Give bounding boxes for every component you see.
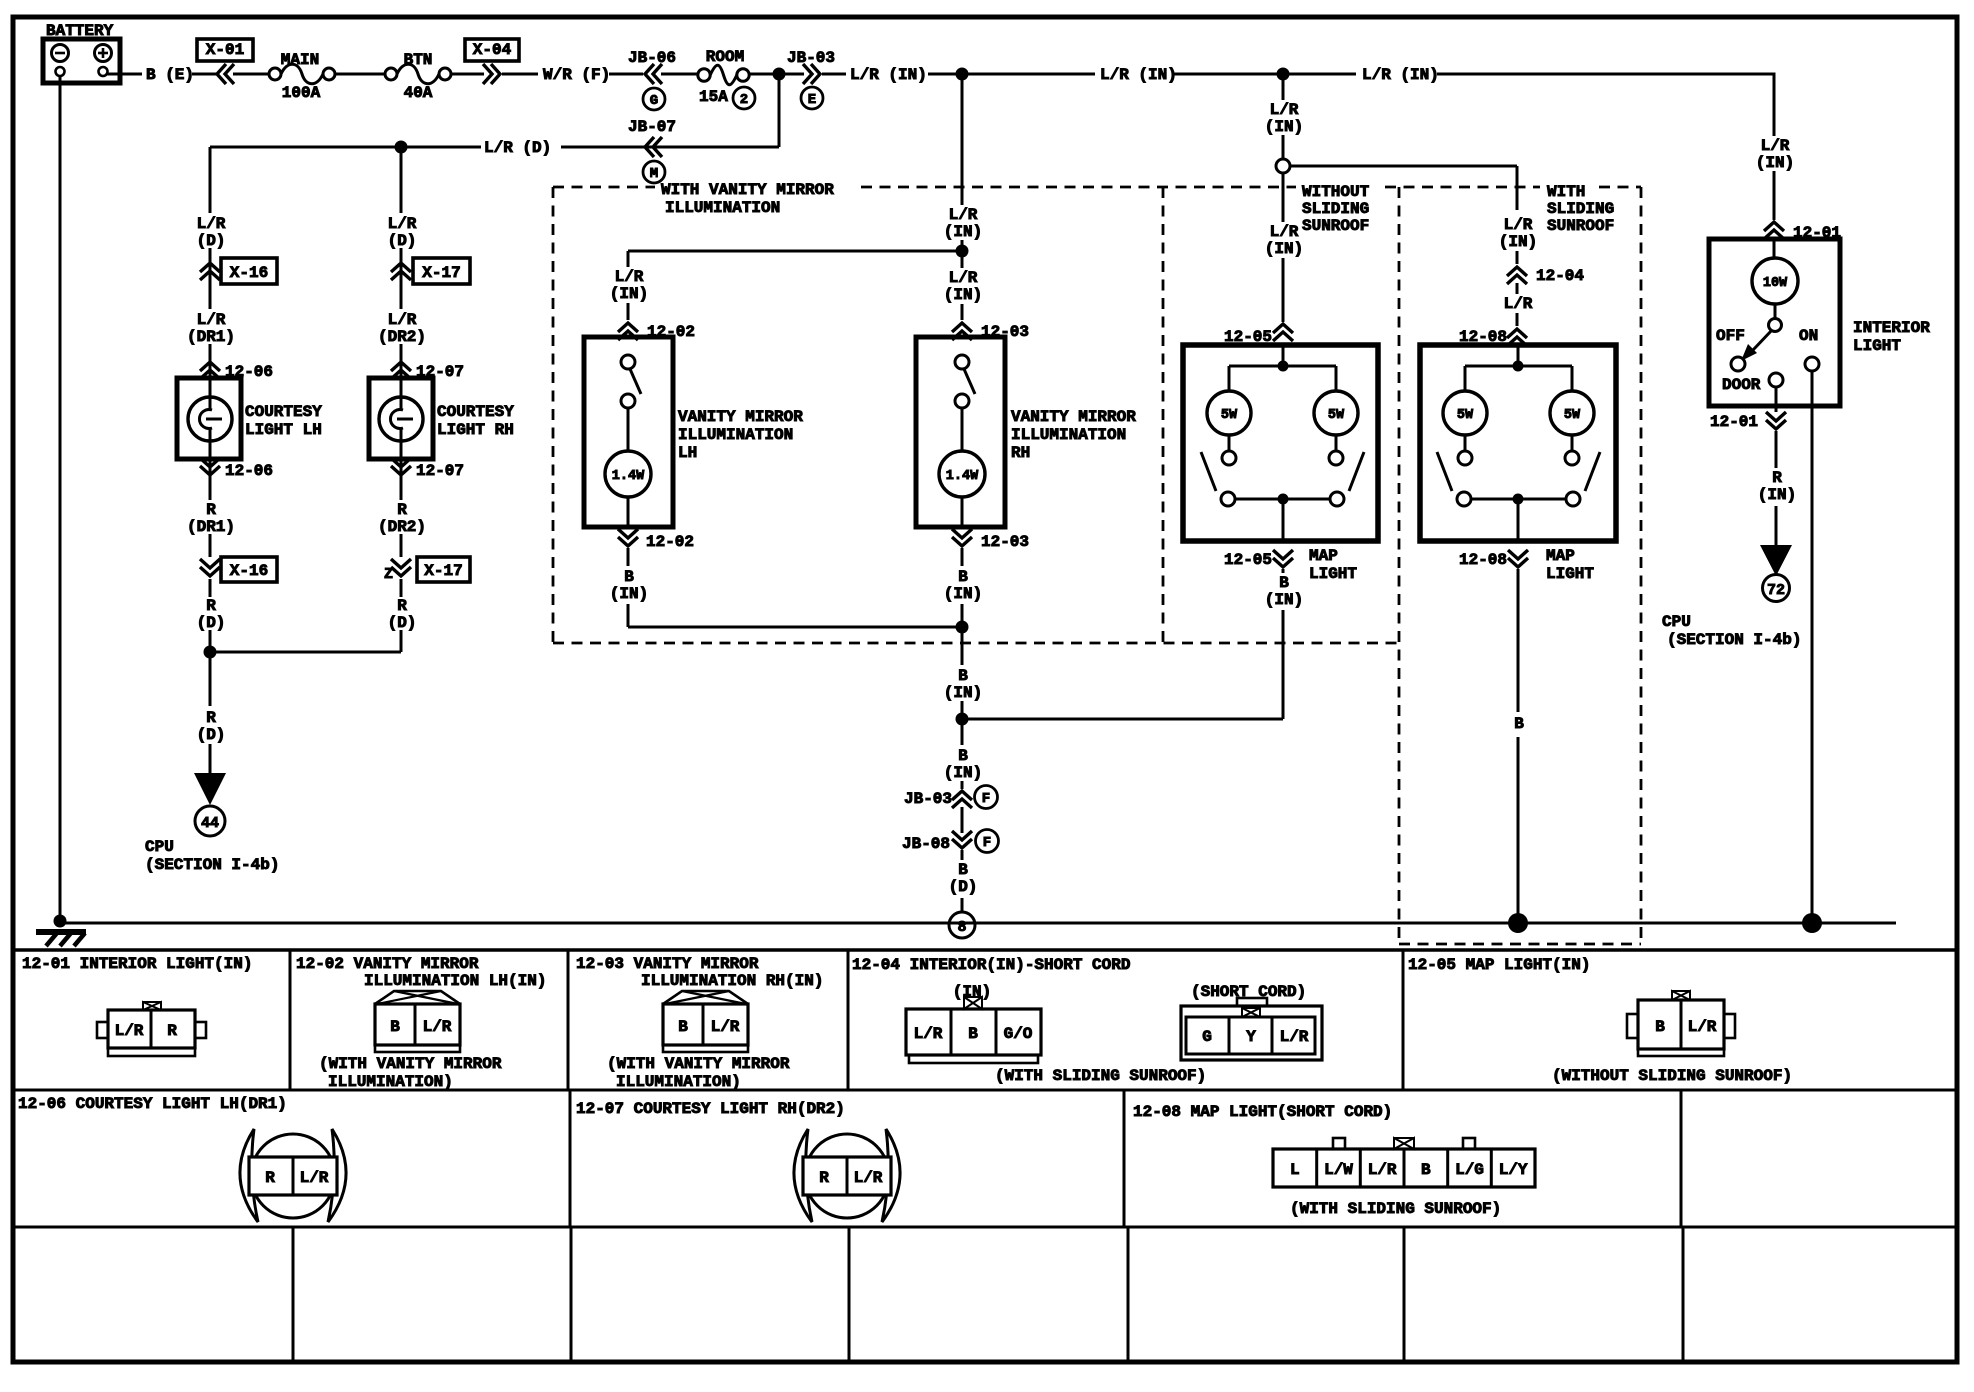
svg-text:12-01 INTERIOR LIGHT(IN): 12-01 INTERIOR LIGHT(IN) xyxy=(22,955,252,973)
svg-text:12-02: 12-02 xyxy=(646,533,694,551)
svg-text:L/R: L/R xyxy=(1688,1018,1717,1036)
svg-text:12-05: 12-05 xyxy=(1224,551,1272,569)
wire B(E) battery positive to X-01 xyxy=(108,73,143,76)
wire branch to courtesy light RH xyxy=(395,141,408,154)
svg-text:LIGHT LH: LIGHT LH xyxy=(245,421,322,439)
svg-text:(WITH VANITY MIRROR: (WITH VANITY MIRROR xyxy=(319,1055,502,1073)
svg-text:CPU: CPU xyxy=(145,838,174,856)
svg-text:JB-07: JB-07 xyxy=(628,118,676,136)
bulb 10W xyxy=(1752,258,1798,304)
svg-text:(DR2): (DR2) xyxy=(378,518,426,536)
svg-text:X-01: X-01 xyxy=(206,41,244,59)
svg-text:B: B xyxy=(1421,1161,1431,1179)
svg-text:(IN): (IN) xyxy=(944,684,982,702)
svg-text:LIGHT RH: LIGHT RH xyxy=(437,421,514,439)
svg-text:12-07: 12-07 xyxy=(416,462,464,480)
connector 12-05 pin (top) xyxy=(1273,324,1293,341)
connector X-04 xyxy=(483,64,500,84)
svg-text:(D): (D) xyxy=(388,232,417,250)
svg-text:SLIDING: SLIDING xyxy=(1302,200,1369,218)
svg-text:ROOM: ROOM xyxy=(706,48,744,66)
svg-text:B: B xyxy=(390,1018,400,1036)
wire L/R(IN) vanity LH xyxy=(627,251,630,267)
svg-text:L/R: L/R xyxy=(197,215,226,233)
vanity mirror illumination LH xyxy=(584,337,673,527)
svg-text:(DR1): (DR1) xyxy=(187,328,235,346)
svg-text:WITHOUT: WITHOUT xyxy=(1302,183,1370,201)
svg-text:G/O: G/O xyxy=(1004,1025,1033,1043)
courtesy light LH xyxy=(177,378,241,459)
wire B(IN) vanity LH to junction xyxy=(627,604,630,627)
svg-text:15A: 15A xyxy=(699,88,728,106)
svg-text:OFF: OFF xyxy=(1716,327,1745,345)
svg-text:B: B xyxy=(1655,1018,1665,1036)
svg-text:M: M xyxy=(650,166,658,182)
connector 12-07 pin (top) xyxy=(391,362,411,379)
switch pivot xyxy=(1769,319,1782,332)
connector drawing 12-07 xyxy=(794,1129,812,1222)
connector X-16 xyxy=(200,263,220,280)
connector 12-01 pin (top) xyxy=(1764,222,1784,239)
svg-text:(WITH SLIDING SUNROOF): (WITH SLIDING SUNROOF) xyxy=(995,1067,1206,1085)
svg-text:ILLUMINATION: ILLUMINATION xyxy=(1011,426,1126,444)
map light (without sliding sunroof) xyxy=(1183,345,1378,541)
fusible link BTN 40A xyxy=(385,68,397,80)
svg-text:F: F xyxy=(982,791,990,807)
svg-text:L/R: L/R xyxy=(711,1018,740,1036)
svg-text:L/R: L/R xyxy=(1761,137,1790,155)
svg-text:(IN): (IN) xyxy=(944,764,982,782)
svg-text:RH: RH xyxy=(1011,444,1030,462)
svg-text:(D): (D) xyxy=(197,614,226,632)
svg-text:G: G xyxy=(650,93,658,109)
svg-text:X-16: X-16 xyxy=(230,264,268,282)
option box WITH SLIDING SUNROOF (dashed) xyxy=(1599,186,1641,189)
wire L/R(D) down to courtesy light LH xyxy=(209,147,212,213)
svg-text:L/W: L/W xyxy=(1324,1161,1353,1179)
wire xyxy=(233,73,269,76)
svg-text:1.4W: 1.4W xyxy=(946,469,979,484)
svg-text:L/R (D): L/R (D) xyxy=(484,139,551,157)
svg-text:ILLUMINATION RH(IN): ILLUMINATION RH(IN) xyxy=(641,972,823,990)
interior light xyxy=(1709,239,1840,406)
connector drawing 12-05 xyxy=(1627,1014,1638,1038)
bulb 5W right xyxy=(1550,391,1594,435)
node ground connector 8 xyxy=(949,912,975,938)
node battery ground junction xyxy=(54,915,67,928)
connector 12-03 pin (bottom) xyxy=(952,529,972,546)
connector drawing 12-02 xyxy=(375,991,460,1004)
wire branch to 12-04 xyxy=(1290,165,1517,168)
svg-text:(WITHOUT SLIDING SUNROOF): (WITHOUT SLIDING SUNROOF) xyxy=(1552,1067,1792,1085)
svg-text:COURTESY: COURTESY xyxy=(245,403,322,421)
wire B to ground bus xyxy=(1517,737,1520,923)
svg-text:L/Y: L/Y xyxy=(1499,1161,1528,1179)
connector drawing 12-04 (IN) xyxy=(906,1009,1041,1055)
connector X-17 xyxy=(391,263,411,280)
wire xyxy=(749,73,804,76)
svg-text:BATTERY: BATTERY xyxy=(46,22,114,40)
connector table grid xyxy=(13,948,1957,952)
svg-text:R: R xyxy=(397,501,407,519)
svg-text:12-07 COURTESY LIGHT RH(DR2): 12-07 COURTESY LIGHT RH(DR2) xyxy=(576,1100,845,1118)
svg-text:L/R: L/R xyxy=(388,311,417,329)
svg-text:MAP: MAP xyxy=(1546,547,1575,565)
svg-text:WITH: WITH xyxy=(1547,183,1585,201)
svg-text:B: B xyxy=(958,568,968,586)
svg-text:R: R xyxy=(819,1169,829,1187)
svg-text:5W: 5W xyxy=(1564,408,1581,423)
svg-text:5W: 5W xyxy=(1457,408,1474,423)
vanity mirror illumination RH xyxy=(916,337,1005,527)
wire B(IN) xyxy=(961,604,964,665)
svg-text:L: L xyxy=(1290,1161,1300,1179)
fuse ROOM 15A pin 2 xyxy=(698,69,710,81)
svg-text:LH: LH xyxy=(678,444,697,462)
svg-text:ILLUMINATION: ILLUMINATION xyxy=(665,199,780,217)
svg-text:JB-03: JB-03 xyxy=(904,790,952,808)
svg-text:40A: 40A xyxy=(404,84,433,102)
svg-text:44: 44 xyxy=(201,815,219,832)
wire L/R(IN) down to vanity mirrors xyxy=(961,74,964,205)
wire DOOR contact down xyxy=(1775,387,1778,412)
svg-text:JB-06: JB-06 xyxy=(628,49,676,67)
wire L/R(D) xyxy=(561,146,779,149)
svg-text:L/R: L/R xyxy=(1270,223,1299,241)
connector 12-02 pin (bottom) xyxy=(618,529,638,546)
junction block JB-07 pin M xyxy=(645,137,662,157)
svg-text:L/R: L/R xyxy=(1280,1028,1309,1046)
svg-text:(IN): (IN) xyxy=(944,286,982,304)
svg-text:L/R: L/R xyxy=(1270,101,1299,119)
wire battery negative to ground bus xyxy=(59,76,62,921)
arrow to CPU pin 72 xyxy=(1760,545,1792,576)
node junction vanity grounds xyxy=(956,621,969,634)
svg-text:(IN): (IN) xyxy=(1499,233,1537,251)
svg-text:(D): (D) xyxy=(388,614,417,632)
svg-text:X-16: X-16 xyxy=(230,562,268,580)
svg-text:R: R xyxy=(397,597,407,615)
node main junction to JB-07 branch xyxy=(773,68,786,81)
svg-text:(D): (D) xyxy=(197,232,226,250)
svg-text:DOOR: DOOR xyxy=(1722,376,1761,394)
connector 12-08 pin (bottom) xyxy=(1508,550,1528,567)
svg-text:5W: 5W xyxy=(1328,408,1345,423)
svg-text:12-01: 12-01 xyxy=(1710,413,1758,431)
node CPU pin 44 xyxy=(195,806,225,836)
svg-text:R: R xyxy=(206,709,216,727)
svg-text:JB-08: JB-08 xyxy=(902,835,950,853)
svg-text:L/R: L/R xyxy=(615,268,644,286)
wire L/R(IN) down to map light (without sunroof) xyxy=(1282,74,1285,100)
connector 12-08 pin (top) xyxy=(1507,329,1527,346)
svg-text:12-06: 12-06 xyxy=(225,462,273,480)
svg-text:SUNROOF: SUNROOF xyxy=(1302,217,1369,235)
wire xyxy=(335,73,385,76)
junction block JB-03 pin F xyxy=(952,791,972,808)
svg-text:JB-03: JB-03 xyxy=(787,49,835,67)
svg-text:(IN): (IN) xyxy=(953,983,991,1001)
fusible link MAIN 100A xyxy=(269,68,281,80)
battery B+ / B- source xyxy=(43,39,120,83)
svg-text:SLIDING: SLIDING xyxy=(1547,200,1614,218)
ground bus wire xyxy=(60,922,1896,925)
wire W/R(F) xyxy=(502,73,538,76)
svg-text:L/R (IN): L/R (IN) xyxy=(1100,66,1177,84)
wire xyxy=(661,73,697,76)
svg-text:B: B xyxy=(624,568,634,586)
svg-text:(IN): (IN) xyxy=(1758,486,1796,504)
svg-text:ILLUMINATION): ILLUMINATION) xyxy=(328,1073,453,1091)
connector 12-05 pin (bottom) xyxy=(1273,550,1293,567)
svg-text:72: 72 xyxy=(1767,582,1785,599)
svg-text:B (E): B (E) xyxy=(146,66,194,84)
svg-text:(IN): (IN) xyxy=(610,585,648,603)
svg-text:INTERIOR: INTERIOR xyxy=(1853,319,1930,337)
svg-text:12-04 INTERIOR(IN)-SHORT CORD: 12-04 INTERIOR(IN)-SHORT CORD xyxy=(852,956,1130,974)
node junction to map-light feed xyxy=(1277,68,1290,81)
courtesy light RH xyxy=(369,378,433,459)
svg-text:12-08: 12-08 xyxy=(1459,551,1507,569)
svg-text:L/R: L/R xyxy=(423,1018,452,1036)
option box WITH VANITY MIRROR ILLUMINATION (dashed) xyxy=(553,186,655,189)
connector drawing 12-01 xyxy=(97,1022,108,1038)
svg-text:F: F xyxy=(983,835,991,851)
svg-text:12-05 MAP LIGHT(IN): 12-05 MAP LIGHT(IN) xyxy=(1408,956,1590,974)
svg-text:COURTESY: COURTESY xyxy=(437,403,514,421)
wire ON contact to ground bus xyxy=(1811,371,1814,923)
wire to junction xyxy=(400,630,403,652)
node junction to vanity-mirror feed xyxy=(956,68,969,81)
svg-text:L/R: L/R xyxy=(949,269,978,287)
node junction courtesy LH/RH xyxy=(204,646,217,659)
map light (with sliding sunroof) xyxy=(1420,345,1616,541)
connector 12-06 pin (bottom) xyxy=(200,458,220,475)
connector X-16 (door side) xyxy=(200,559,220,576)
svg-text:R: R xyxy=(206,597,216,615)
connector drawing 12-03 xyxy=(663,991,748,1004)
svg-text:10W: 10W xyxy=(1763,276,1788,291)
svg-text:VANITY MIRROR: VANITY MIRROR xyxy=(1011,408,1136,426)
svg-text:R: R xyxy=(206,501,216,519)
connector 12-01 pin (bottom) xyxy=(1766,412,1786,429)
connector 12-02 pin (top) xyxy=(618,323,638,340)
svg-text:MAP: MAP xyxy=(1309,547,1338,565)
svg-text:(IN): (IN) xyxy=(944,585,982,603)
svg-text:MAIN: MAIN xyxy=(281,51,319,69)
svg-text:Y: Y xyxy=(1246,1028,1256,1046)
wire L/R(IN) to interior light xyxy=(1437,73,1774,76)
svg-text:LIGHT: LIGHT xyxy=(1853,337,1901,355)
arrow to CPU pin 44 xyxy=(194,773,226,805)
svg-text:L/R: L/R xyxy=(949,206,978,224)
svg-text:B: B xyxy=(958,747,968,765)
svg-text:L/R (IN): L/R (IN) xyxy=(850,66,927,84)
svg-text:(DR1): (DR1) xyxy=(187,518,235,536)
node junction map light ground branch xyxy=(956,713,969,726)
svg-text:12-03: 12-03 xyxy=(981,533,1029,551)
svg-text:12-08 MAP LIGHT(SHORT CORD): 12-08 MAP LIGHT(SHORT CORD) xyxy=(1133,1103,1392,1121)
bulb 5W left xyxy=(1443,391,1487,435)
svg-text:E: E xyxy=(808,92,816,108)
svg-text:L/R: L/R xyxy=(1504,216,1533,234)
svg-text:5W: 5W xyxy=(1221,408,1238,423)
wire from junction down to L/R(D) line xyxy=(778,74,781,147)
svg-text:SUNROOF: SUNROOF xyxy=(1547,217,1614,235)
svg-text:(SECTION I-4b): (SECTION I-4b) xyxy=(145,856,279,874)
svg-text:12-06 COURTESY LIGHT LH(DR1): 12-06 COURTESY LIGHT LH(DR1) xyxy=(18,1095,287,1113)
svg-text:(IN): (IN) xyxy=(1265,240,1303,258)
svg-text:ILLUMINATION: ILLUMINATION xyxy=(678,426,793,444)
svg-text:B: B xyxy=(1514,715,1524,733)
option box WITHOUT SLIDING SUNROOF (dashed) xyxy=(1385,186,1540,189)
connector drawing 12-04 (SHORT CORD) xyxy=(1237,998,1267,1006)
switch levers xyxy=(1201,452,1216,491)
bulb 5W right xyxy=(1314,391,1358,435)
svg-text:L/G: L/G xyxy=(1455,1161,1484,1179)
svg-text:G: G xyxy=(1202,1028,1212,1046)
connector drawing 12-08 xyxy=(1333,1138,1345,1149)
svg-text:L/R: L/R xyxy=(1504,295,1533,313)
svg-text:L/R: L/R xyxy=(300,1169,329,1187)
svg-text:ON: ON xyxy=(1799,327,1818,345)
svg-text:W/R (F): W/R (F) xyxy=(543,66,610,84)
svg-text:(IN): (IN) xyxy=(610,285,648,303)
svg-text:(IN): (IN) xyxy=(1265,118,1303,136)
svg-text:LIGHT: LIGHT xyxy=(1546,565,1594,583)
switch levers xyxy=(1437,452,1452,491)
wire L/R(IN) down to map light (with sunroof) xyxy=(1516,166,1519,210)
svg-text:12-04: 12-04 xyxy=(1536,267,1584,285)
svg-text:(IN): (IN) xyxy=(944,223,982,241)
svg-text:(SECTION I-4b): (SECTION I-4b) xyxy=(1667,631,1801,649)
svg-text:(D): (D) xyxy=(949,878,978,896)
switch lever pointing to OFF xyxy=(1753,330,1772,350)
node CPU pin 72 xyxy=(1763,575,1790,602)
svg-text:(D): (D) xyxy=(197,726,226,744)
junction block JB-08 pin F xyxy=(952,831,972,848)
svg-text:(IN): (IN) xyxy=(1756,154,1794,172)
svg-text:VANITY MIRROR: VANITY MIRROR xyxy=(678,408,803,426)
connector 12-06 pin (top) xyxy=(200,362,220,379)
svg-text:X-17: X-17 xyxy=(422,264,460,282)
svg-text:L/R: L/R xyxy=(1368,1161,1397,1179)
svg-text:(DR2): (DR2) xyxy=(378,328,426,346)
svg-text:B: B xyxy=(958,667,968,685)
connector drawing 12-06 xyxy=(240,1129,258,1222)
svg-text:2: 2 xyxy=(740,92,748,108)
svg-text:R: R xyxy=(167,1022,177,1040)
node junction vanity LH branch xyxy=(956,245,969,258)
svg-text:WITH VANITY MIRROR: WITH VANITY MIRROR xyxy=(661,181,834,199)
svg-text:X-17: X-17 xyxy=(424,562,462,580)
svg-text:(IN): (IN) xyxy=(1265,591,1303,609)
wire xyxy=(451,73,484,76)
svg-text:L/R: L/R xyxy=(854,1169,883,1187)
svg-text:L/R: L/R xyxy=(197,311,226,329)
connector 12-07 pin (bottom) xyxy=(391,458,411,475)
svg-text:L/R (IN): L/R (IN) xyxy=(1362,66,1439,84)
svg-text:B: B xyxy=(678,1018,688,1036)
svg-text:B: B xyxy=(1279,574,1289,592)
node junction on ground bus xyxy=(1802,913,1822,933)
ground symbol xyxy=(36,929,86,935)
bulb 5W left xyxy=(1207,391,1251,435)
connector 12-04 pin xyxy=(1507,267,1527,284)
svg-text:1.4W: 1.4W xyxy=(612,469,645,484)
svg-text:L/R: L/R xyxy=(388,215,417,233)
svg-text:R: R xyxy=(265,1169,275,1187)
junction block JB-06 pin G xyxy=(645,64,662,84)
svg-text:12-03 VANITY MIRROR: 12-03 VANITY MIRROR xyxy=(576,955,759,973)
connector X-01 xyxy=(217,64,234,84)
wire branch to vanity LH xyxy=(628,250,962,253)
wire B(IN) to junction xyxy=(1282,610,1285,719)
svg-text:R: R xyxy=(1772,469,1782,487)
svg-text:12-02 VANITY MIRROR: 12-02 VANITY MIRROR xyxy=(296,955,479,973)
svg-text:100A: 100A xyxy=(282,84,321,102)
svg-text:X-04: X-04 xyxy=(473,41,512,59)
svg-text:L/R: L/R xyxy=(115,1022,144,1040)
wire L/R(IN) xyxy=(822,73,846,76)
svg-text:L/R: L/R xyxy=(914,1025,943,1043)
svg-text:ILLUMINATION): ILLUMINATION) xyxy=(616,1073,741,1091)
svg-text:(WITH VANITY MIRROR: (WITH VANITY MIRROR xyxy=(607,1055,790,1073)
node splice to sunroof map light feed xyxy=(1276,159,1290,173)
svg-text:LIGHT: LIGHT xyxy=(1309,565,1357,583)
svg-text:CPU: CPU xyxy=(1662,613,1691,631)
svg-text:B: B xyxy=(968,1025,978,1043)
svg-text:(WITH SLIDING SUNROOF): (WITH SLIDING SUNROOF) xyxy=(1290,1200,1501,1218)
junction block JB-03 pin E xyxy=(803,64,820,84)
connector 12-03 pin (top) xyxy=(952,323,972,340)
svg-text:ILLUMINATION LH(IN): ILLUMINATION LH(IN) xyxy=(364,972,546,990)
svg-text:BTN: BTN xyxy=(404,51,433,69)
node junction on ground bus xyxy=(1508,913,1528,933)
svg-text:B: B xyxy=(958,861,968,879)
